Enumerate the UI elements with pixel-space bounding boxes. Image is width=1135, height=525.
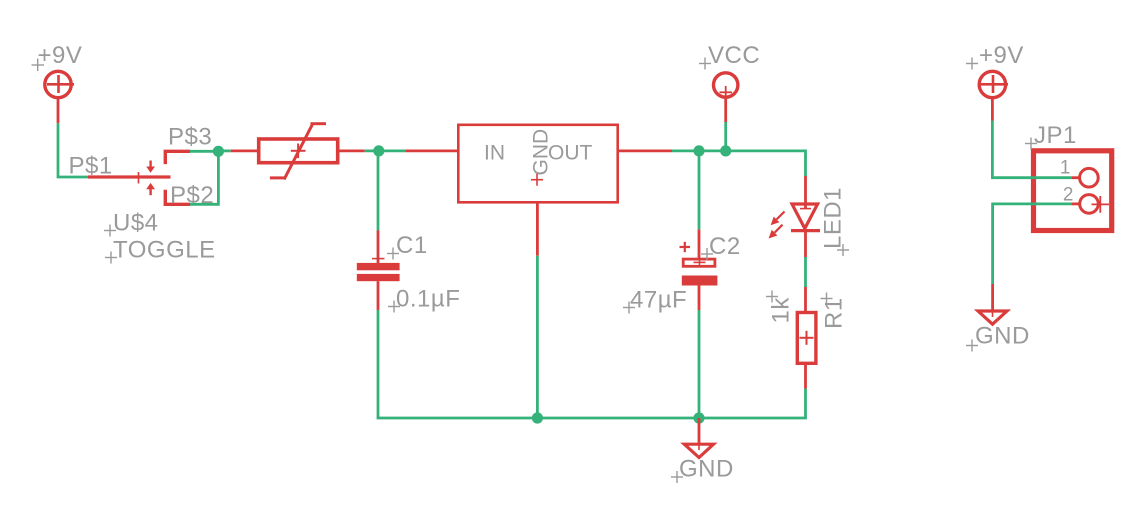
label +9V right — [966, 42, 1024, 70]
wire +9V to JP1 pin1 (green) — [992, 121, 1071, 178]
label 0.1uF — [388, 286, 460, 313]
capacitor C1 plates — [357, 263, 400, 281]
connector JP1 body — [1034, 151, 1112, 231]
wire junction B down to C1 (green) — [377, 151, 380, 231]
svg-text:0.1µF: 0.1µF — [396, 286, 460, 313]
pin C1 bottom (red) — [377, 281, 380, 310]
label JP1 — [1025, 122, 1077, 150]
R1 origin cross — [800, 331, 814, 345]
svg-text:1: 1 — [1060, 158, 1071, 179]
wire regulator GND to rail (green) — [536, 256, 539, 418]
svg-text:GND: GND — [530, 129, 553, 176]
capacitor C2 bottom plate (filled) — [682, 276, 718, 286]
svg-text:JP1: JP1 — [1034, 122, 1077, 149]
LED1 emission arrow 2 — [769, 225, 783, 239]
wire junction A to varistor (green then red pin) — [218, 149, 230, 152]
wire VCC to junction D (green) — [724, 122, 727, 151]
pin regulator OUT (red) — [619, 149, 672, 152]
switch U$4 lever P$1 — [88, 172, 171, 184]
varistor body — [259, 123, 338, 179]
switch arrow down — [146, 161, 155, 173]
LED1 emission arrow 1 — [771, 212, 785, 226]
wire supply left pin (red) — [57, 98, 60, 124]
wire net N1 vertical (green) — [58, 123, 88, 177]
wire bottom rail (green) — [378, 417, 699, 418]
wire varistor to regulator (green) — [365, 149, 406, 152]
supply +9V left — [45, 71, 74, 97]
pin LED anode (red) — [804, 176, 807, 209]
pin JP1-2 circle — [1080, 195, 1099, 214]
wire R1 to rail (green) — [699, 389, 806, 419]
svg-text:TOGGLE: TOGGLE — [113, 237, 216, 264]
svg-text:+9V: +9V — [38, 42, 83, 69]
svg-text:2: 2 — [1063, 185, 1074, 206]
pin LED cathode (red) — [804, 231, 807, 257]
svg-text:OUT: OUT — [548, 142, 593, 165]
supply +9V right — [979, 71, 1008, 97]
junction B — [373, 145, 384, 156]
label C1 — [387, 232, 428, 260]
pin regulator IN (red) — [405, 149, 457, 152]
wire P$2 to junction (green) — [190, 151, 218, 204]
LED1 triangle and bar — [791, 204, 820, 231]
pin R1 bottom (red) — [804, 364, 807, 389]
capacitor C2 top plate (hollow) — [683, 259, 715, 266]
svg-text:47µF: 47µF — [630, 287, 687, 314]
wire P$3 to junction (green) — [190, 150, 218, 153]
wire top net corner down to LED (green) — [804, 151, 805, 176]
pin C1 top (red) — [377, 231, 380, 264]
svg-text:U$4: U$4 — [113, 210, 159, 237]
junction F — [693, 412, 704, 423]
junction C — [693, 145, 704, 156]
pin C2 minus (red) — [698, 286, 701, 311]
JP1 origin cross — [1092, 196, 1110, 213]
svg-text:GND: GND — [679, 456, 734, 483]
svg-text:GND: GND — [975, 323, 1030, 350]
pin C2 plus (red) — [698, 229, 701, 258]
svg-text:C2: C2 — [709, 233, 741, 260]
wire C2 to rail (green) — [698, 310, 701, 418]
pin VCC (red) — [724, 98, 727, 122]
label TOGGLE — [105, 237, 216, 264]
switch contact P$3 — [165, 151, 190, 164]
wire OUT net top (green) — [672, 149, 806, 152]
wire junction C down to C2 (green) — [698, 151, 701, 230]
switch arrow up — [146, 183, 155, 195]
resistor R1 body — [797, 313, 816, 364]
pin +9V right (red) — [991, 98, 994, 121]
regulator U1 body — [458, 125, 617, 203]
label VCC — [699, 42, 760, 70]
ground GND center — [684, 444, 713, 458]
pin JP1-1 circle — [1080, 168, 1099, 187]
pin JP1-1 stub (red) — [1071, 176, 1079, 179]
svg-text:+9V: +9V — [979, 42, 1024, 69]
label U$4 — [104, 210, 159, 237]
label LED1 (rotated) — [820, 187, 850, 256]
wire JP1 pin2 to GND (green) — [993, 204, 1072, 284]
label +9V left — [32, 42, 83, 71]
pin regulator GND (red) — [536, 204, 539, 256]
pin GND center (red) — [698, 418, 701, 445]
svg-text:IN: IN — [484, 142, 505, 165]
pin R1 top (red) — [804, 287, 807, 311]
pin GND right (red) — [991, 284, 994, 312]
svg-text:R1: R1 — [821, 297, 848, 329]
regulator origin cross — [531, 174, 543, 186]
svg-text:P$1: P$1 — [69, 153, 113, 180]
label 47uF — [623, 287, 687, 314]
label R1 (rotated) — [821, 293, 848, 330]
wire LED to R1 (green) — [804, 257, 807, 287]
switch contact P$2 — [165, 190, 190, 205]
C2 polarity plus sign — [680, 242, 691, 252]
label GND right — [966, 323, 1030, 352]
svg-text:VCC: VCC — [708, 42, 760, 69]
svg-text:C1: C1 — [396, 232, 428, 259]
label C2 — [701, 233, 741, 260]
label 1k (rotated) — [766, 291, 795, 324]
label GND center — [671, 456, 734, 484]
svg-text:LED1: LED1 — [820, 187, 847, 249]
C1 origin cross — [372, 258, 385, 260]
ground GND right — [978, 311, 1007, 324]
pin varistor left (red) — [231, 149, 257, 152]
svg-text:P$3: P$3 — [168, 124, 212, 151]
junction A — [213, 146, 224, 157]
wire C1 to rail (green) — [377, 310, 380, 418]
supply VCC — [714, 73, 738, 99]
LED origin cross — [800, 208, 811, 210]
junction E — [532, 412, 543, 423]
junction D — [720, 145, 731, 156]
pin varistor right (red) — [338, 149, 365, 152]
varistor origin cross — [291, 144, 306, 159]
C2 origin cross — [694, 258, 706, 266]
pin JP1-2 stub (red) — [1071, 202, 1079, 205]
